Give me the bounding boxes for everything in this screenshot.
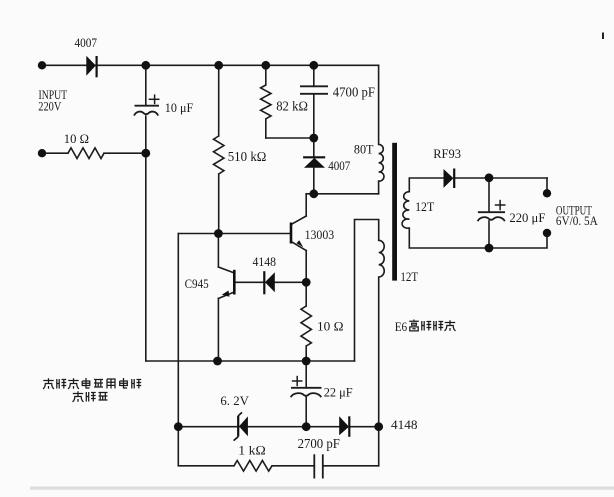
wire collector rail [306, 193, 378, 195]
node input bottom terminal [38, 149, 46, 157]
node output bottom terminal [543, 229, 551, 237]
label core CJK ci [434, 321, 443, 331]
diode D1 4007 top [86, 56, 96, 78]
node top rail j4 [309, 61, 318, 70]
wire left vertical line A [145, 65, 147, 105]
svg-text:4700 pF: 4700 pF [333, 85, 375, 100]
svg-text:22 μF: 22 μF [324, 384, 353, 399]
wire left vertical line B [177, 234, 179, 427]
svg-text:220V: 220V [38, 98, 61, 113]
artifact bottom band [30, 487, 614, 490]
svg-text:4148: 4148 [253, 254, 277, 269]
node output cap top j [485, 173, 494, 182]
node rail426 j2 [302, 422, 311, 431]
svg-text:6V/0. 5A: 6V/0. 5A [556, 213, 598, 228]
capacitor C3 22uF [291, 376, 322, 397]
transistor Q1 13003 [291, 223, 303, 248]
node output cap bottom j [485, 244, 494, 253]
node cap input j [141, 149, 150, 158]
svg-text:4007: 4007 [328, 158, 350, 173]
svg-text:C945: C945 [185, 276, 209, 291]
capacitor C5 220uF [478, 200, 506, 221]
diode D6 RF93 [444, 169, 455, 189]
node top rail j3 [261, 61, 270, 70]
wire secondary bottom [409, 228, 547, 248]
wire base rail of Q1 [178, 233, 291, 235]
label title CJK dian2 [120, 378, 128, 388]
diode D4 zener 6.2V [234, 412, 248, 440]
svg-text:4007: 4007 [75, 35, 98, 50]
resistor R4 10ohm emitter [301, 306, 311, 346]
wire feedback winding loop [355, 220, 379, 362]
resistor R5 1k [234, 461, 272, 472]
wire Q2 emitter [218, 292, 234, 299]
wire diode D2 leads [313, 138, 315, 157]
label core CJK pin [422, 321, 431, 331]
diode D2 4007 vertical [303, 157, 325, 168]
node output top terminal [543, 189, 551, 197]
wire 10ohm2 leads [305, 282, 307, 306]
svg-text:82 kΩ: 82 kΩ [276, 99, 308, 114]
wire 82k branch [265, 65, 267, 85]
svg-text:10 Ω: 10 Ω [317, 319, 344, 334]
wire Q2 collector [217, 234, 219, 268]
node 82k-4700p j [309, 134, 318, 143]
node top rail j2 [214, 61, 223, 70]
transistor Q2 C945 [222, 270, 235, 297]
label title CJK huan [86, 392, 95, 402]
wire primary winding vertical [378, 65, 380, 144]
wire bottom rail A [178, 426, 239, 428]
wire top rail [42, 64, 379, 66]
svg-text:2700 pF: 2700 pF [298, 437, 340, 452]
node rail361 j2 [302, 357, 311, 366]
svg-text:10 μF: 10 μF [165, 100, 193, 115]
capacitor C4 2700pF [314, 454, 323, 478]
node rail426 j3 [374, 422, 383, 431]
label title CJK bian [73, 391, 84, 402]
svg-text:12T: 12T [415, 199, 434, 214]
artifact top right [602, 33, 604, 40]
wire 4700pF branch [313, 65, 315, 86]
wire 220uF leads [488, 178, 490, 212]
node input top terminal [38, 61, 46, 69]
wire Q2 base to D3 [234, 281, 264, 283]
svg-text:E6: E6 [395, 319, 408, 334]
wire bottom rail mid [146, 360, 355, 362]
node collector j [309, 189, 318, 198]
label title CJK shou [43, 378, 54, 389]
capacitor C1 10uF [134, 94, 160, 115]
label title CJK ji [57, 379, 66, 389]
label title CJK chong [68, 378, 79, 389]
svg-text:510 kΩ: 510 kΩ [228, 150, 267, 165]
wire 510k leads [218, 65, 220, 136]
label core CJK gao [409, 320, 419, 331]
label title CJK qi2 [99, 393, 108, 401]
resistor R3 82k [261, 85, 271, 119]
svg-text:12T: 12T [400, 269, 418, 284]
capacitor C2 4700pF [300, 86, 328, 94]
resistor R1 10ohm input [68, 148, 104, 159]
wire bottom rail B [178, 427, 234, 466]
resistor R2 510k [214, 136, 224, 174]
wire Q1 collector [305, 194, 307, 216]
svg-text:6. 2V: 6. 2V [220, 393, 249, 408]
node rail361 j1 [213, 357, 222, 366]
label title CJK dian1 [82, 378, 90, 388]
svg-text:4148: 4148 [391, 417, 418, 432]
svg-text:13003: 13003 [305, 227, 335, 242]
svg-text:220 μF: 220 μF [509, 210, 545, 225]
node top rail j1 [141, 61, 150, 70]
transformer secondary coil 12T [402, 192, 409, 228]
node emitter j [302, 278, 311, 287]
diode D5 4148 bottom [339, 416, 349, 437]
wire 10ohm input leads [42, 152, 68, 154]
transformer feedback coil 12T [379, 240, 385, 277]
label title CJK qi1 [94, 380, 103, 388]
diode D3 4148 horizontal [264, 271, 275, 294]
label title CJK yong [107, 379, 115, 389]
transformer primary coil 80T [379, 144, 384, 181]
svg-text:RF93: RF93 [433, 146, 461, 161]
node base j [214, 229, 223, 238]
svg-text:10 Ω: 10 Ω [64, 131, 89, 146]
svg-text:1 kΩ: 1 kΩ [238, 443, 265, 458]
wire secondary top [409, 178, 443, 192]
svg-text:80T: 80T [354, 141, 374, 156]
wire Q1 emitter [291, 242, 306, 251]
node rail426 j1 [174, 422, 183, 431]
transformer core [392, 143, 397, 281]
wire 22uF leads [305, 361, 307, 388]
label title CJK yuan [132, 379, 141, 389]
label core CJK xin [445, 320, 456, 331]
